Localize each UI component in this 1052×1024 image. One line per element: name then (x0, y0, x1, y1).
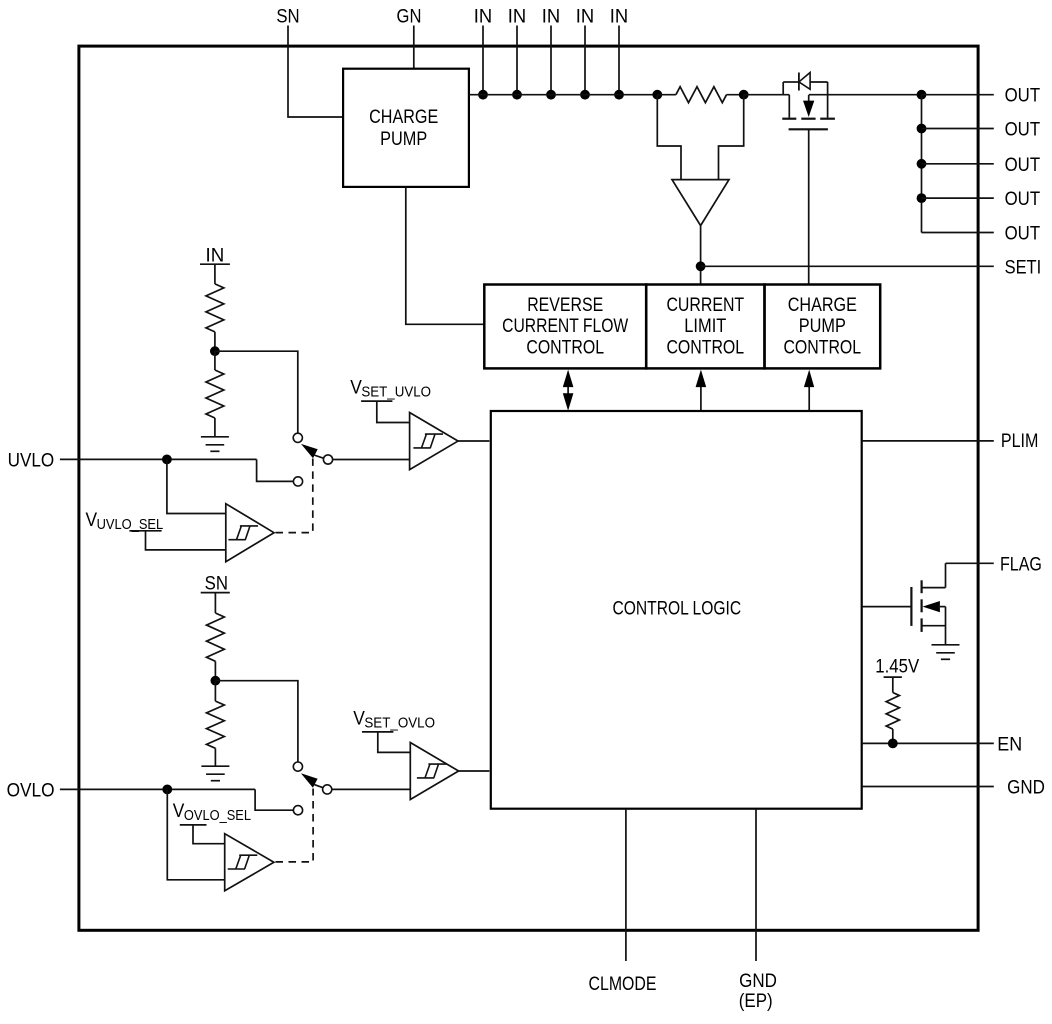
wire UVLO to SEL comparator input (167, 459, 226, 513)
junction dot OVLO divider tap (211, 676, 221, 686)
svg-text:CURRENT FLOW: CURRENT FLOW (502, 316, 628, 337)
svg-text:CONTROL LOGIC: CONTROL LOGIC (613, 599, 742, 620)
wire OVLO to SEL comparator input (167, 789, 224, 879)
svg-text:IN: IN (610, 6, 628, 27)
wire UVLO pin (60, 458, 257, 460)
junction dot IN2 on bus (512, 90, 522, 100)
wire OUT pin 3 (922, 163, 994, 165)
junction dot sense resistor right node (739, 90, 749, 100)
junction dot IN3 on bus (546, 90, 556, 100)
up arrow control logic to current limit control (700, 385, 702, 411)
svg-text:V: V (350, 378, 362, 399)
switch UVLO top contact (293, 433, 302, 442)
wire OUT pin 2 (922, 128, 994, 130)
svg-text:CONTROL: CONTROL (783, 338, 861, 359)
junction dot OUT rail 2 (917, 124, 927, 134)
svg-text:IN: IN (542, 6, 560, 27)
IC outer boundary box (79, 46, 978, 930)
svg-text:SN: SN (276, 6, 299, 27)
pass MOSFET channel plates (782, 118, 796, 120)
dashed control line UVLO switch (276, 459, 313, 533)
wire IN3 to input bus (550, 26, 552, 95)
switch OVLO top contact (293, 762, 302, 771)
svg-text:IN: IN (508, 6, 526, 27)
wire UVLO comparator to control logic (458, 440, 489, 442)
wire OVLO comparator to control logic (459, 770, 490, 772)
current sense resistor (657, 94, 676, 96)
ground symbol UVLO divider (201, 436, 229, 438)
FLAG MOSFET drain stub (922, 587, 946, 589)
junction dot EN node (888, 739, 898, 749)
body diode of pass MOSFET (783, 81, 799, 83)
wire to UVLO tap (214, 332, 216, 351)
svg-text:SET_OVLO: SET_OVLO (364, 715, 435, 732)
junction dot UVLO divider tap (210, 346, 220, 356)
resistor 1.45V pullup (886, 693, 899, 730)
svg-text:CHARGE: CHARGE (788, 295, 857, 316)
wire sense left node to amp input (657, 95, 681, 180)
wire OVLO to lower switch contact (255, 789, 293, 810)
junction dot SETI node (696, 261, 706, 271)
resistor UVLO divider upper (206, 284, 224, 332)
svg-text:OUT: OUT (1005, 120, 1041, 141)
comparator UVLO select (226, 504, 274, 562)
svg-text:IN: IN (576, 6, 594, 27)
wire VUVLO_SEL to comparator (146, 531, 226, 550)
switch UVLO lower contact (293, 477, 302, 486)
wire IN2 to input bus (516, 26, 518, 95)
wire IN4 to input bus (584, 26, 586, 95)
ground symbol FLAG source (932, 644, 960, 646)
wire VSET_OVLO to comparator (378, 732, 411, 753)
svg-text:PUMP: PUMP (380, 129, 427, 150)
wire EN (862, 742, 994, 744)
wire to OVLO tap (214, 661, 216, 680)
wire IN to divider (214, 264, 216, 284)
switch OVLO wiper arrow (301, 773, 318, 787)
svg-text:LIMIT: LIMIT (684, 316, 726, 337)
ground symbol OVLO divider (201, 765, 229, 767)
switch UVLO wiper contact (323, 455, 332, 464)
wire VSET_UVLO to comparator (377, 401, 410, 422)
1.45V source terminal bar (884, 676, 902, 678)
FLAG MOSFET body arrow (923, 601, 940, 612)
junction dot sense resistor left node (652, 90, 662, 100)
resistor OVLO divider upper (207, 613, 225, 661)
svg-text:CLMODE: CLMODE (589, 974, 657, 995)
junction dot OUT node (917, 90, 927, 100)
junction dot UVLO (162, 455, 172, 465)
charge pump block (343, 69, 469, 187)
svg-text:FLAG: FLAG (1000, 554, 1042, 575)
wire OUT pin 1 (922, 94, 994, 96)
svg-text:V: V (86, 510, 98, 531)
double arrow reverse control to control logic (567, 386, 569, 394)
wire GN pin to charge pump (413, 26, 415, 69)
junction dot OUT rail 4 (917, 193, 927, 203)
wire control logic to FLAG gate (862, 606, 911, 608)
wire IN5 to input bus (618, 26, 620, 95)
wire VOVLO_SEL to comparator (193, 825, 225, 844)
svg-text:PLIM: PLIM (1001, 431, 1039, 452)
svg-text:SETI: SETI (1005, 257, 1042, 278)
svg-text:IN: IN (206, 245, 225, 266)
FLAG MOSFET gate plate (910, 587, 912, 626)
wire IN1 to input bus (482, 26, 484, 95)
svg-text:SET_UVLO: SET_UVLO (361, 384, 431, 401)
resistor OVLO divider lower (214, 681, 216, 701)
wire diode right leg to source (827, 82, 829, 118)
wire gate to charge pump control (808, 129, 810, 284)
wire source to ground (945, 607, 947, 645)
current sense amplifier (672, 180, 729, 226)
wire OUT pin 4 (922, 197, 994, 199)
svg-text:OVLO_SEL: OVLO_SEL (184, 807, 251, 824)
wire sense right node to amp input (719, 95, 744, 180)
switch UVLO wiper arrow (301, 444, 318, 458)
reverse current flow control block (484, 285, 646, 369)
pass MOSFET body arrow (808, 95, 810, 101)
svg-text:GND: GND (739, 971, 777, 992)
junction dot OVLO (162, 785, 172, 795)
svg-text:CHARGE: CHARGE (369, 107, 438, 128)
wire drain to FLAG pin (945, 563, 947, 587)
svg-text:IN: IN (474, 6, 492, 27)
wire UVLO tap to switch contact (215, 351, 298, 433)
wire GND (862, 786, 994, 788)
comparator OVLO select (225, 834, 274, 891)
wire GND EP (755, 809, 757, 961)
svg-text:OUT: OUT (1005, 155, 1041, 176)
wire charge pump to reverse current flow control (406, 187, 485, 324)
FLAG MOSFET channel (dashed) (920, 580, 922, 593)
svg-text:EN: EN (997, 734, 1022, 755)
FLAG MOSFET source stub (922, 625, 946, 627)
comparator UVLO threshold (410, 413, 458, 470)
junction dot IN5 on bus (614, 90, 624, 100)
wire SETI node to pin (701, 265, 994, 267)
wire bus into MOSFET drain (744, 94, 790, 96)
current limit control block (646, 285, 764, 369)
svg-text:1.45V: 1.45V (875, 657, 919, 678)
svg-text:OVLO: OVLO (7, 780, 55, 801)
comparator OVLO threshold (410, 743, 458, 800)
svg-text:OUT: OUT (1005, 224, 1041, 245)
wire OVLO switch to comparator (332, 788, 410, 790)
control logic block (491, 411, 862, 809)
wire diode left leg (782, 82, 784, 96)
switch OVLO wiper contact (323, 785, 332, 794)
wire MOSFET to OUT bus (809, 94, 922, 96)
charge pump control block (765, 285, 881, 369)
svg-text:CURRENT: CURRENT (666, 295, 744, 316)
dashed control line OVLO switch (276, 789, 314, 862)
junction dot IN1 on bus (478, 90, 488, 100)
wire OVLO tap to switch contact (215, 681, 298, 762)
svg-text:V: V (353, 709, 365, 730)
junction dot OUT rail 3 (917, 159, 927, 169)
svg-text:PUMP: PUMP (799, 316, 846, 337)
wire SN to divider (214, 593, 216, 613)
pass MOSFET gate plate (789, 128, 828, 130)
wire PLIM (862, 440, 994, 442)
wire FLAG (946, 562, 994, 564)
svg-text:CONTROL: CONTROL (666, 338, 744, 359)
svg-text:UVLO: UVLO (8, 450, 55, 471)
svg-text:GND: GND (1007, 778, 1045, 799)
svg-text:GN: GN (397, 6, 422, 27)
svg-text:OUT: OUT (1005, 189, 1041, 210)
wire OVLO pin (60, 788, 255, 790)
svg-text:SN: SN (205, 573, 228, 594)
resistor UVLO divider lower (214, 351, 216, 370)
svg-text:V: V (173, 801, 185, 822)
wire OUT pin 5 (922, 232, 994, 234)
svg-text:(EP): (EP) (739, 991, 773, 1012)
svg-text:CONTROL: CONTROL (526, 338, 604, 359)
wire SN pin to charge pump (288, 26, 343, 118)
wire amp output to SETI node (700, 226, 702, 285)
junction dot IN4 on bus (580, 90, 590, 100)
svg-text:OUT: OUT (1005, 86, 1041, 107)
wire UVLO switch to comparator (333, 459, 410, 461)
switch OVLO lower contact (293, 806, 302, 815)
wire input bus IN (469, 94, 657, 96)
wire UVLO to lower switch contact (257, 459, 294, 481)
wire OUT rail vertical (921, 95, 923, 233)
up arrow control logic to charge pump control (808, 385, 810, 411)
wire CLMODE (625, 809, 627, 961)
svg-text:REVERSE: REVERSE (527, 295, 603, 316)
